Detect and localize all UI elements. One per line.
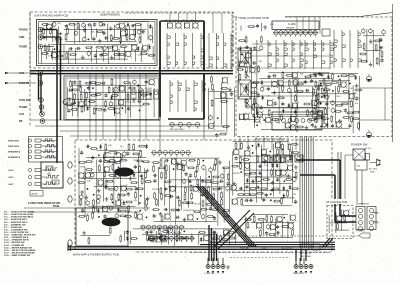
label main pcb xyxy=(72,251,134,257)
tone ladder B xyxy=(305,40,333,69)
svg-text:S-16 ... SELECTOR SW (MAIN): S-16 ... SELECTOR SW (MAIN) xyxy=(4,249,36,252)
switch box tone 1 xyxy=(238,48,251,67)
svg-text:C-1281: C-1281 xyxy=(288,23,297,26)
label psu xyxy=(240,247,294,250)
relay oval 2 xyxy=(63,99,75,106)
main texture L xyxy=(78,143,153,222)
svg-text:AC OUTLET: AC OUTLET xyxy=(282,247,294,250)
svg-text:47u: 47u xyxy=(355,103,358,105)
svg-text:REMOTE SP: REMOTE SP xyxy=(293,273,305,275)
switch ladder B xyxy=(209,33,233,69)
chassis gnd 2 xyxy=(366,130,371,138)
svg-text:FUNCTION: FUNCTION xyxy=(8,141,19,143)
svg-text:2SC: 2SC xyxy=(191,20,195,22)
tone texture xyxy=(252,71,332,132)
svg-text:250V: 250V xyxy=(262,248,267,250)
transistor row Q xyxy=(165,20,199,30)
svg-text:SP CHANGE PCB: SP CHANGE PCB xyxy=(326,200,348,204)
terminal row R xyxy=(293,258,313,275)
wire band power xyxy=(338,152,341,205)
svg-text:(S-14): (S-14) xyxy=(365,148,371,150)
bus bottom 2 xyxy=(68,243,335,251)
sp change texture xyxy=(329,209,350,233)
sp terminal B xyxy=(367,207,376,231)
svg-text:S-4 .... MONITOR SW 1: S-4 .... MONITOR SW 1 xyxy=(4,218,28,221)
phono ch2 stage xyxy=(65,78,155,118)
switch box tone 2 xyxy=(238,80,251,99)
bus phono bottom xyxy=(30,71,233,74)
svg-text:S-18 ... MAIN POWER SW: S-18 ... MAIN POWER SW xyxy=(4,254,31,257)
svg-text:SWITCHED: SWITCHED xyxy=(301,256,312,258)
main texture bottom xyxy=(120,226,236,246)
wire cross 3 xyxy=(297,17,320,34)
main texture C xyxy=(152,158,230,226)
tone hwires xyxy=(252,44,330,108)
LED rows bot xyxy=(8,166,59,186)
svg-text:SW-1 SW-2 SW-3: SW-1 SW-2 SW-3 xyxy=(170,129,184,131)
svg-text:TAPE PB: TAPE PB xyxy=(19,82,29,85)
bus sp run 1 xyxy=(296,160,356,216)
conn row tone xyxy=(273,29,330,37)
wire power links xyxy=(345,155,362,205)
svg-text:SPEAKERS: SPEAKERS xyxy=(358,203,369,206)
label function pcb xyxy=(28,201,61,208)
wire tone top border xyxy=(234,13,393,18)
arrow in L xyxy=(5,72,36,74)
IC oval 2 xyxy=(102,218,120,226)
arrow in R xyxy=(5,82,36,84)
svg-text:60Hz: 60Hz xyxy=(370,172,375,174)
wire phones dash xyxy=(190,253,330,258)
bus sp exit xyxy=(322,238,333,248)
label speakers xyxy=(358,203,379,225)
svg-text:FUSE 4A: FUSE 4A xyxy=(240,247,249,250)
svg-text:SPEAKER B: SPEAKER B xyxy=(8,156,21,159)
svg-text:PHONES: PHONES xyxy=(356,231,365,233)
conn row sw C xyxy=(169,122,201,131)
power transistors xyxy=(262,155,303,162)
svg-text:AUX: AUX xyxy=(19,72,24,75)
phono upper stage xyxy=(41,21,153,44)
PCB box phono xyxy=(30,12,233,68)
bus sp run 2 xyxy=(300,175,356,222)
wire right border xyxy=(392,4,394,142)
power sw box xyxy=(350,141,377,170)
outlet boxes xyxy=(301,244,320,258)
svg-text:GND: GND xyxy=(19,36,25,39)
wire sw up xyxy=(170,13,222,33)
switch ladder A xyxy=(167,33,204,67)
bus left 2 xyxy=(60,37,62,120)
svg-text:S-1 .... FUNCTION SW (MAIN): S-1 .... FUNCTION SW (MAIN) xyxy=(4,211,34,214)
svg-text:PHONO: PHONO xyxy=(19,29,28,32)
svg-text:2SC945: 2SC945 xyxy=(152,189,160,191)
conn row main bottom xyxy=(140,225,185,231)
switch ladder C xyxy=(170,80,205,112)
IC U1 tone xyxy=(272,21,319,30)
bus left 3 xyxy=(39,74,42,113)
LED rows top xyxy=(8,137,63,163)
svg-text:R CH: R CH xyxy=(374,223,379,225)
svg-text:4.7K: 4.7K xyxy=(264,165,269,167)
svg-text:LAMP: LAMP xyxy=(8,183,14,186)
svg-text:L CH: L CH xyxy=(374,213,379,215)
svg-text:2SC: 2SC xyxy=(165,20,169,22)
conn row main top xyxy=(151,151,191,157)
PCB box spchange xyxy=(325,199,355,239)
AC plug xyxy=(369,159,381,174)
svg-text:TUNER: TUNER xyxy=(19,46,28,49)
psu texture xyxy=(244,214,296,239)
PCB box tone xyxy=(236,15,392,137)
svg-text:4-PIN 6CH CORD: 4-PIN 6CH CORD xyxy=(152,242,167,244)
svg-text:TAPE MON: TAPE MON xyxy=(8,145,19,148)
bus switch C xyxy=(168,74,204,119)
amp module box xyxy=(76,208,128,246)
connector ovals xyxy=(68,162,72,246)
input jacks xyxy=(19,27,45,123)
relay group xyxy=(131,90,159,99)
svg-text:(20dB PADDING): (20dB PADDING) xyxy=(100,13,120,17)
svg-text:2SC945: 2SC945 xyxy=(194,203,202,205)
wire sw drop xyxy=(168,14,232,71)
svg-text:TA7089: TA7089 xyxy=(31,193,37,196)
phones jack xyxy=(210,231,370,239)
svg-text:2SC: 2SC xyxy=(182,20,186,22)
main texture bl xyxy=(81,227,112,245)
tone ladder C xyxy=(334,30,361,68)
legend list xyxy=(4,211,36,257)
tone top right texture xyxy=(359,28,385,68)
tone ladder A xyxy=(268,40,303,69)
svg-text:2SC945: 2SC945 xyxy=(232,173,240,175)
svg-text:4.7K: 4.7K xyxy=(270,24,275,26)
PCB box phono inner xyxy=(37,20,158,66)
svg-text:MAIN AMP & POWER SUPPLY PCB: MAIN AMP & POWER SUPPLY PCB xyxy=(73,253,119,257)
svg-text:PCB: PCB xyxy=(53,204,59,208)
bus vert bundle xyxy=(209,225,217,261)
wire mid links xyxy=(30,74,230,142)
big caps xyxy=(149,235,166,241)
svg-text:2SC: 2SC xyxy=(174,20,178,22)
svg-text:47u: 47u xyxy=(120,146,123,148)
sp terminal A xyxy=(356,207,365,231)
svg-text:PB: PB xyxy=(19,120,23,123)
relay oval xyxy=(104,152,123,163)
wire jack links xyxy=(43,30,61,47)
wire long left xyxy=(29,12,31,126)
svg-text:TONE CONTROL PCB: TONE CONTROL PCB xyxy=(238,16,269,20)
wire top border xyxy=(125,12,234,14)
chassis gnd 1 xyxy=(366,74,371,82)
wire cross 1 xyxy=(78,74,146,140)
wire cross 2 xyxy=(160,117,204,152)
bus diag bundle xyxy=(196,186,257,247)
bus bottom 1 xyxy=(68,242,335,247)
driver box xyxy=(30,191,43,197)
regulator texture xyxy=(313,73,363,134)
phono ch2 box xyxy=(64,76,160,120)
terminal row L xyxy=(204,258,230,275)
svg-text:2SD313 2SB507 2SD313 2SB507: 2SD313 2SB507 2SD313 2SB507 xyxy=(255,139,286,141)
label parts row xyxy=(255,139,286,141)
wire band right xyxy=(300,137,313,249)
wire func links xyxy=(24,208,150,212)
conn row main bottom2 xyxy=(148,236,195,243)
wire tone drop xyxy=(240,137,296,151)
func box xyxy=(41,162,63,188)
svg-text:PRE AMP: PRE AMP xyxy=(286,26,295,29)
svg-text:TUNER: TUNER xyxy=(19,106,28,109)
bus right drop xyxy=(296,250,306,261)
svg-text:LAMP: LAMP xyxy=(8,176,14,179)
svg-text:LAMP: LAMP xyxy=(8,169,14,172)
svg-text:AUX: AUX xyxy=(19,113,24,116)
bus left 1 xyxy=(56,30,58,164)
svg-text:S-12 ... SPEAKER SW B: S-12 ... SPEAKER SW B xyxy=(4,239,29,242)
svg-text:TAPE REC: TAPE REC xyxy=(19,99,31,102)
bus diag cross xyxy=(214,210,254,249)
main texture R xyxy=(231,141,300,206)
IC oval 1 xyxy=(115,168,134,176)
wire reg right xyxy=(360,88,392,120)
tone top texture xyxy=(241,23,275,32)
bus switch L xyxy=(160,21,204,117)
PCB box main xyxy=(75,140,332,252)
tone left texture xyxy=(236,35,263,120)
svg-text:AC 120V: AC 120V xyxy=(369,168,378,171)
texture mid right xyxy=(208,75,234,137)
svg-text:POWER SW: POWER SW xyxy=(351,143,368,147)
IC U2 tone xyxy=(272,112,322,130)
phono lower stage xyxy=(41,44,156,64)
tone pots xyxy=(240,54,250,107)
